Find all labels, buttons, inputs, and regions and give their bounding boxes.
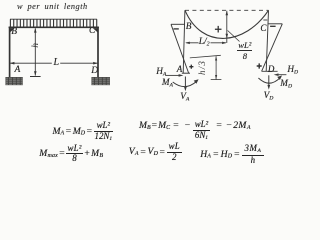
base line at A [182,72,190,74]
dimension wL^2/8 at midspan [226,11,228,43]
node label B (frame) [11,28,17,38]
formula H_A = H_D = 3M_A/h [200,145,264,164]
reaction V_D arrow [268,75,270,87]
base line at D [262,70,278,72]
reaction H_A arrow [165,74,179,76]
minus sign left column diagram [174,28,179,30]
beam BC of frame [9,26,99,28]
moment diagram: right column moment line [262,24,283,72]
dimension label L/2 [199,38,210,48]
column CD [97,27,99,77]
formula part: = -2M_A [216,121,250,131]
svg-text:h: h [31,43,41,48]
moment M_A arc [173,81,197,86]
distributed load hatch strip on beam BC [10,19,97,27]
moment diagram: M_B ordinate line at B' [171,23,185,25]
reaction V_A arrow [184,77,186,89]
moment diagram: right column axis C'D [266,10,268,71]
fixed support block at D [91,77,110,85]
leader line to wL^2/8 label [228,31,240,42]
reaction label V_A [180,92,189,103]
label wL^2/8 with fraction [237,41,252,60]
corner gusset at B [10,28,15,33]
formula V_A = V_D = wL/2 [129,143,182,161]
moment diagram: M_C ordinate line at C' [269,23,283,25]
dimension label L [54,58,60,68]
reaction label V_D [264,91,274,102]
moment label M_A [162,78,173,89]
moment diagram: left column axis B'A [183,10,185,73]
node label B (moment diagram) [186,23,192,32]
formula part: = - [173,121,190,131]
moment label M_D [280,79,292,90]
dimension line L [10,62,98,64]
plus sign at base A [189,65,193,69]
moment diagram: dashed closing line B'C' [185,9,269,11]
moment diagram: beam parabola [185,10,269,38]
node label C (frame) [89,27,95,37]
dimension L/2 [186,42,226,44]
formula part: fraction wL^2/6N_1 [193,121,211,140]
svg-text:h/3: h/3 [197,60,207,75]
reaction label H_D [287,65,298,76]
minus sign right column diagram [270,25,276,27]
plus sign beam diagram [215,26,222,33]
node label C (moment diagram) [260,24,266,33]
load label w per unit length [17,3,88,11]
fixed support block at A [5,77,22,85]
formula M_B = M_C = -wL^2/6N_1 = -2M_A (part 1) [139,121,170,131]
corner gusset at C [93,28,98,33]
plus sign at base D [257,63,262,68]
node label A (frame) [15,66,21,76]
formula M_max = wL^2/8 + M_B [39,145,103,163]
dimension line h [30,28,41,76]
reaction label H_A [156,67,166,78]
node label A (moment diagram) [177,65,183,74]
node label D (frame) [91,67,98,77]
dimension h/3 ticks and line [190,55,222,79]
reaction H_D arrow [278,74,287,76]
moment diagram: left column moment line [171,24,189,73]
formula M_A = M_D = wL^2/12N_1 [53,122,113,141]
minus tick above C [263,19,267,21]
moment M_D arc [258,78,280,83]
node label D (moment diagram) [268,65,275,74]
column AB [9,27,11,77]
